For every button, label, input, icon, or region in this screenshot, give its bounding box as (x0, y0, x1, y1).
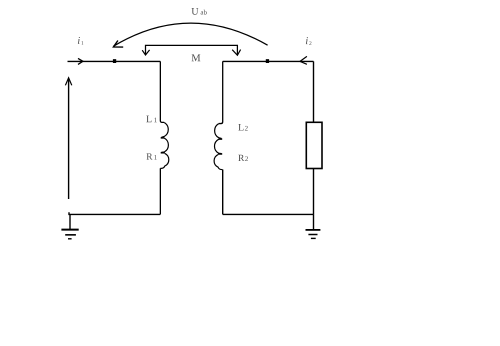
inductor L2 R2 right coil (219, 61, 223, 123)
label L1 (146, 116, 151, 123)
ground left bars (61, 229, 78, 231)
label i2 subscript (309, 41, 311, 45)
ground left stub (69, 214, 71, 229)
mutual inductance bracket M (146, 45, 238, 55)
label R1 subscript (154, 155, 156, 160)
wire top right (223, 60, 314, 62)
label R1 (146, 153, 152, 159)
arrowhead of Uab arc (113, 41, 123, 48)
label M (192, 54, 201, 61)
node b dot right (266, 59, 269, 63)
arrowhead up (65, 78, 71, 86)
label R2 (238, 155, 244, 161)
arrowhead current i1 on top wire (78, 58, 83, 64)
label L2 (238, 124, 243, 131)
label L2 subscript (245, 126, 248, 131)
wire bottom left (69, 212, 160, 214)
ground right bars (306, 229, 321, 231)
label i2 (306, 37, 308, 44)
wire right branch top (313, 61, 315, 122)
label R2 subscript (245, 156, 248, 161)
arrowhead current i2 on top wire (300, 56, 307, 64)
wire left branch with up arrow (68, 80, 70, 200)
label U of Uab (192, 8, 199, 15)
ground right stub (313, 214, 315, 229)
label i1 (78, 37, 80, 44)
wire top left (68, 60, 161, 62)
arrowhead M right (232, 50, 240, 56)
inductor L1 R1 left coil (160, 61, 164, 122)
label ab subscript (201, 10, 207, 15)
label L1 subscript (154, 118, 156, 123)
voltage arc Uab (114, 23, 268, 46)
wire bottom right (223, 213, 314, 215)
arrowhead M left (142, 50, 149, 55)
wire right branch bottom (313, 169, 315, 215)
node a dot left (113, 59, 116, 63)
resistor box R (306, 122, 322, 168)
label i1 subscript (81, 41, 83, 45)
